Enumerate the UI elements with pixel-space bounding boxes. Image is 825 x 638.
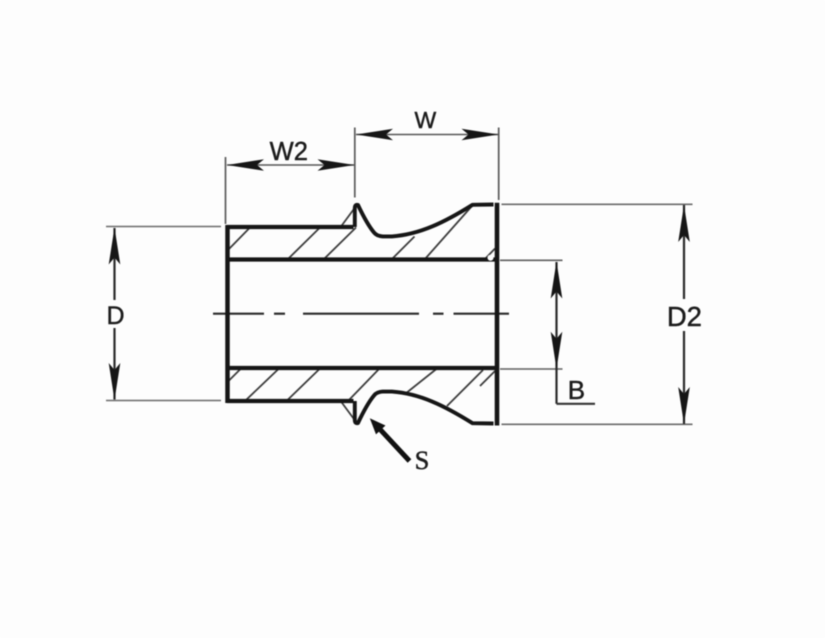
dimension D2 line xyxy=(683,205,685,424)
dimension B extension top xyxy=(500,259,563,261)
D2 arrow up xyxy=(678,205,690,242)
pulley outline lower profile xyxy=(227,399,354,403)
dimension W extension middle xyxy=(354,128,356,198)
dimension B extension bottom xyxy=(500,368,563,370)
dimension D line xyxy=(113,228,115,400)
svg-text:D2: D2 xyxy=(667,301,702,332)
W arrow left xyxy=(356,129,393,141)
hatch top band xyxy=(227,206,495,260)
svg-text:D: D xyxy=(106,302,124,330)
bore top line xyxy=(226,257,500,261)
dimension B line xyxy=(555,262,557,369)
centerline (dash-dot axis) xyxy=(213,313,509,315)
dimension W2 line xyxy=(227,164,354,166)
D arrow down xyxy=(109,363,121,400)
scan artifact dot xyxy=(488,255,494,261)
S callout arrow shaft xyxy=(381,430,410,461)
dimension D extension top xyxy=(106,226,221,228)
D2 arrow down xyxy=(678,387,690,424)
rim right edge xyxy=(495,203,500,426)
hub left edge xyxy=(225,225,230,403)
svg-text:S: S xyxy=(415,445,430,475)
svg-text:W: W xyxy=(415,107,437,133)
S callout arrowhead xyxy=(370,418,386,434)
D arrow up xyxy=(109,228,121,265)
B leader vertical xyxy=(555,369,557,404)
W2 arrow left xyxy=(227,159,264,171)
svg-text:B: B xyxy=(568,375,585,405)
dimension D2 extension top xyxy=(502,203,693,205)
dimension W extension right xyxy=(498,128,500,201)
dimension D2 extension bottom xyxy=(502,423,693,425)
dimension W line xyxy=(356,134,498,136)
dimension W2 extension line left xyxy=(225,157,227,224)
B leader shelf xyxy=(557,403,596,405)
W2 arrow right xyxy=(318,159,355,171)
svg-text:W2: W2 xyxy=(270,138,308,166)
D label gap xyxy=(104,300,126,328)
B arrow down xyxy=(551,332,563,369)
dimension D extension bottom xyxy=(106,400,221,402)
B arrow up xyxy=(551,262,563,299)
D2 label gap xyxy=(670,299,699,331)
W arrow right xyxy=(462,129,499,141)
hatch bottom band xyxy=(227,369,495,423)
bore bottom line xyxy=(226,366,500,370)
pulley outline upper profile xyxy=(227,225,354,229)
